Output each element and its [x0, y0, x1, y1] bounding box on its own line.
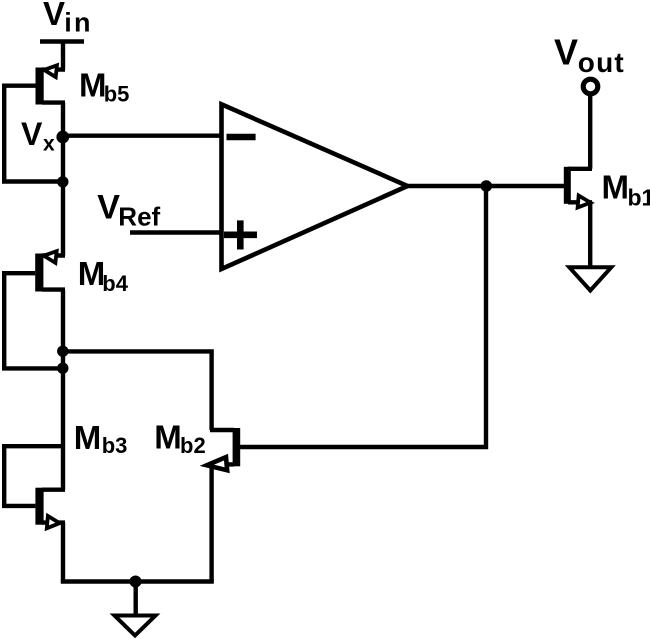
label Vx	[21, 116, 55, 155]
label VRef	[97, 189, 160, 232]
svg-text:M: M	[154, 418, 182, 455]
wire: ground stem	[133, 582, 137, 616]
wire: Mb5 source to Mb4 drain	[61, 103, 65, 256]
node: Mb5 gate tie junction	[57, 176, 68, 187]
node: Mb4 gate tie junction	[57, 363, 68, 374]
transistor Mb2	[206, 428, 240, 472]
svg-text:Ref: Ref	[118, 202, 160, 232]
label Vin	[43, 0, 93, 37]
node Vx	[56, 131, 69, 144]
wire: Mb3 source to ground rail	[61, 523, 65, 582]
label Mb1	[602, 169, 650, 211]
svg-text:x: x	[43, 132, 55, 155]
transistor Mb4	[35, 250, 65, 292]
svg-text:b2: b2	[180, 433, 206, 458]
label Mb5	[79, 66, 129, 106]
transistor Mb1	[564, 167, 592, 209]
wire: Mb3 gate to drain loop	[4, 446, 63, 506]
wire: op-amp output to Mb1 gate	[407, 184, 564, 188]
wire: Vx to op-amp inverting input	[63, 133, 222, 137]
wire: Mb1 source to ground	[588, 202, 592, 267]
ground (bottom)	[115, 616, 156, 636]
wire: Mb4 source to Mb3 drain	[61, 290, 65, 490]
Vin supply rail	[40, 39, 84, 44]
svg-text:b4: b4	[102, 271, 128, 296]
wire: bottom ground rail	[61, 579, 214, 583]
svg-text:V: V	[21, 116, 43, 152]
wire: Mb5 gate feedback loop	[4, 86, 63, 182]
label Mb3	[74, 419, 128, 458]
wire: Mb4 gate feedback loop	[4, 273, 63, 368]
label Mb2	[154, 418, 205, 458]
svg-text:b3: b3	[102, 433, 128, 458]
wire: feedback to Mb2 gate	[240, 186, 486, 447]
op-amp U1	[222, 104, 408, 269]
ground (right)	[569, 267, 611, 290]
label Mb4	[78, 255, 129, 296]
transistor Mb5	[36, 64, 66, 104]
terminal Vout	[583, 79, 598, 94]
svg-text:V: V	[97, 189, 120, 227]
svg-text:b5: b5	[104, 82, 130, 107]
wire: VRef to op-amp non-inverting input	[130, 230, 222, 235]
wire: Vout terminal to Mb1 drain	[588, 94, 592, 169]
svg-text:V: V	[43, 0, 65, 32]
wire: junction to Mb2 drain	[63, 351, 212, 430]
svg-text:M: M	[74, 419, 102, 456]
node: output junction	[481, 180, 493, 192]
node: ground rail junction	[130, 576, 142, 588]
svg-text:out: out	[578, 47, 625, 78]
svg-text:b1: b1	[628, 185, 650, 211]
svg-text:M: M	[78, 255, 106, 292]
svg-text:V: V	[554, 32, 578, 73]
transistor Mb3	[35, 488, 65, 530]
label Vout	[554, 32, 625, 78]
svg-text:in: in	[64, 7, 92, 37]
svg-text:M: M	[79, 66, 107, 103]
wire: Mb2 source to bottom rail	[209, 464, 213, 581]
node: Mb4 drain junction to Mb2	[57, 346, 68, 357]
svg-text:M: M	[602, 169, 630, 206]
wire: Vin rail to Mb5 drain	[61, 42, 65, 70]
